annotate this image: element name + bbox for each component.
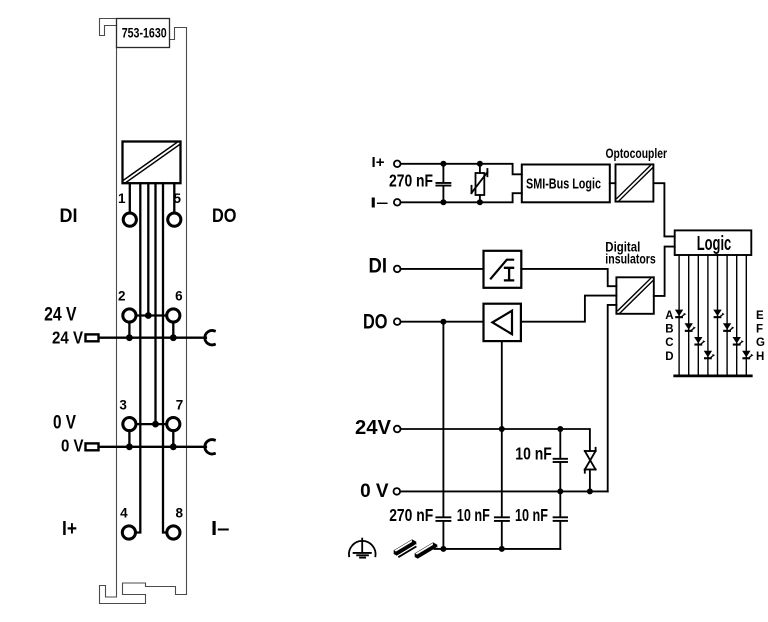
DIN rail (carrier rail) icon xyxy=(394,539,438,559)
bus converter U1 xyxy=(123,142,181,184)
DIN rail right hat xyxy=(433,542,437,548)
DIN rail left foot xyxy=(394,550,397,556)
wire logic output F xyxy=(726,255,728,375)
wire pin7 to 0V rail xyxy=(172,430,174,447)
wire buffer to insulators xyxy=(521,296,617,322)
svg-text:10 nF: 10 nF xyxy=(515,505,548,525)
capacitor 270 nF (shield) xyxy=(436,517,450,521)
terminal I- xyxy=(394,199,401,206)
wire link pins 3-7 xyxy=(136,423,168,425)
junction 24V/10nF xyxy=(557,426,563,432)
LED F xyxy=(723,323,734,332)
wire k3 (converter to 2/6 link) xyxy=(147,183,149,315)
terminal DO xyxy=(394,318,401,325)
junction I-/cap xyxy=(440,199,446,205)
wire link pins 2-6 xyxy=(136,314,168,316)
svg-text:SMI-Bus Logic: SMI-Bus Logic xyxy=(526,177,601,193)
svg-text:I–: I– xyxy=(370,195,388,211)
pin 5 xyxy=(168,213,181,226)
shield bus wire xyxy=(435,548,561,550)
svg-text:270 nF: 270 nF xyxy=(389,505,433,525)
junction I+/varistor xyxy=(477,161,483,167)
wire logic output D xyxy=(707,255,709,375)
junction on 2-6 link xyxy=(145,312,152,319)
svg-text:4: 4 xyxy=(120,505,128,520)
wire k6 (converter to pin 5) xyxy=(173,183,175,213)
junction I+/cap xyxy=(440,161,446,167)
wire logic output B xyxy=(688,255,690,375)
svg-text:8: 8 xyxy=(175,505,183,520)
svg-text:5: 5 xyxy=(173,191,181,206)
wire I+ to SMI-Bus Logic xyxy=(401,164,522,175)
label box 753-1630 xyxy=(117,19,170,48)
0V rail wire xyxy=(99,446,206,448)
LED E xyxy=(713,310,724,319)
svg-text:24 V: 24 V xyxy=(44,305,77,326)
junction pin3/0V xyxy=(126,443,133,450)
junction buffer/24V xyxy=(499,426,505,432)
svg-text:D: D xyxy=(665,351,673,363)
svg-text:753-1630: 753-1630 xyxy=(122,26,167,41)
wire DO branch down to shield cap xyxy=(442,322,444,517)
svg-text:DO: DO xyxy=(363,311,388,334)
junction pin2/24V xyxy=(126,334,133,341)
wire logic output A xyxy=(678,255,680,375)
svg-text:270 nF: 270 nF xyxy=(389,170,433,190)
svg-text:3: 3 xyxy=(119,398,127,413)
0V rail wire xyxy=(400,490,607,492)
Logic box U7 xyxy=(675,230,752,255)
capacitor 10 nF (buffer shield) xyxy=(495,517,509,521)
svg-text:C: C xyxy=(665,337,673,349)
wire logic output C xyxy=(697,255,699,375)
DIN rail left hat xyxy=(412,539,416,545)
svg-text:insulators: insulators xyxy=(605,252,656,267)
svg-text:I+: I+ xyxy=(372,155,385,171)
wire pin3 to 0V rail xyxy=(128,430,130,447)
junction pin6/24V xyxy=(170,334,177,341)
DIN rail right ridge xyxy=(416,545,434,556)
0V clamp connector xyxy=(86,443,99,450)
wire pin6 to 24V rail xyxy=(172,322,174,338)
LED B xyxy=(685,323,696,332)
LED D xyxy=(704,351,715,360)
wire threshold to insulators xyxy=(521,269,616,286)
svg-text:Logic: Logic xyxy=(697,232,732,255)
SMI-Bus Logic U2 xyxy=(522,165,610,203)
LED H xyxy=(742,351,753,360)
junction I-/varistor xyxy=(477,199,483,205)
svg-text:I+: I+ xyxy=(62,518,77,540)
svg-text:7: 7 xyxy=(176,398,184,413)
wire k2 (converter to pin 4) xyxy=(135,183,140,532)
DIN rail right foot xyxy=(415,553,418,559)
24V clamp connector xyxy=(86,334,99,341)
24V hook terminal xyxy=(205,331,215,345)
threshold comparator U4 xyxy=(484,251,522,288)
LED A xyxy=(675,310,686,319)
svg-text:DI: DI xyxy=(369,254,388,277)
terminal 24V xyxy=(394,426,401,433)
svg-text:6: 6 xyxy=(175,289,183,304)
svg-text:1: 1 xyxy=(118,191,126,206)
capacitor 10 nF (24V-0V) xyxy=(554,429,567,491)
pin 8 xyxy=(167,526,180,539)
LED common bus xyxy=(675,375,752,378)
wire insulators ground to 0V xyxy=(608,305,617,492)
wire k5 (converter to pin 8) xyxy=(163,183,168,532)
svg-text:2: 2 xyxy=(118,289,126,304)
svg-text:10 nF: 10 nF xyxy=(457,505,490,525)
svg-text:E: E xyxy=(756,310,764,322)
24V rail wire xyxy=(401,429,590,451)
junction shield/10nF xyxy=(499,546,505,552)
junction 0V/10nF chain xyxy=(557,488,563,494)
svg-text:H: H xyxy=(756,351,764,363)
pin 3 xyxy=(123,418,136,431)
capacitor 270 nF input xyxy=(436,164,450,203)
optocoupler U3 xyxy=(616,164,654,201)
svg-text:F: F xyxy=(756,324,763,336)
varistor RV1 xyxy=(472,164,488,203)
wire SMI to optocoupler xyxy=(610,182,616,184)
svg-text:DI: DI xyxy=(60,205,78,227)
pin 1 xyxy=(123,213,136,226)
wire DO to buffer xyxy=(401,321,484,323)
junction shield/270nF xyxy=(440,546,446,552)
svg-text:24 V: 24 V xyxy=(52,328,83,348)
svg-text:DO: DO xyxy=(212,205,237,227)
wire logic output G xyxy=(736,255,738,375)
svg-text:I–: I– xyxy=(211,518,230,540)
pin 4 xyxy=(122,526,135,539)
pin 7 xyxy=(167,418,180,431)
module outline xyxy=(100,19,187,604)
junction pin7/0V xyxy=(170,443,177,450)
capacitor 10 nF (0V shield) xyxy=(554,491,567,549)
LED array group xyxy=(665,255,765,376)
24V rail wire xyxy=(99,337,206,339)
svg-text:G: G xyxy=(756,337,765,349)
wire I- to SMI-Bus Logic xyxy=(401,193,522,202)
wire insulators to Logic xyxy=(654,247,675,296)
svg-text:0 V: 0 V xyxy=(360,481,389,502)
digital insulators U6 xyxy=(616,277,653,314)
junction DO branch xyxy=(440,319,446,325)
LED C xyxy=(694,337,705,346)
svg-text:A: A xyxy=(665,310,673,322)
pin 6 xyxy=(167,309,180,322)
wire optocoupler to Logic xyxy=(653,183,674,236)
svg-text:Optocoupler: Optocoupler xyxy=(606,146,668,161)
junction on 3-7 link xyxy=(152,421,159,428)
buffer U5 xyxy=(484,304,521,341)
wire k4 (converter to 3/7 link) xyxy=(154,183,156,424)
wire DI to threshold box xyxy=(401,268,484,270)
0V hook terminal xyxy=(205,440,215,454)
wire logic output E xyxy=(717,255,719,375)
DIN rail left ridge xyxy=(395,542,413,553)
wire k1 (converter to pin 1) xyxy=(129,183,131,213)
terminal DI xyxy=(394,266,401,273)
DIN rail channel edge xyxy=(398,546,416,557)
terminal I+ xyxy=(394,161,401,168)
wire logic output H xyxy=(745,255,747,375)
wire pin2 to 24V rail xyxy=(128,322,130,338)
svg-text:B: B xyxy=(665,324,673,336)
svg-text:10 nF: 10 nF xyxy=(515,444,552,464)
svg-text:24V: 24V xyxy=(355,417,392,439)
svg-text:0 V: 0 V xyxy=(53,412,76,433)
terminal 0V xyxy=(394,488,401,495)
LED G xyxy=(733,337,744,346)
junction 0V/TVS xyxy=(587,488,593,494)
pin 2 xyxy=(123,309,136,322)
svg-text:0 V: 0 V xyxy=(61,436,84,456)
TVS suppressor diode xyxy=(585,448,596,492)
ground (protective earth) xyxy=(349,539,376,558)
wire buffer/24V down to shield cap xyxy=(501,341,503,517)
